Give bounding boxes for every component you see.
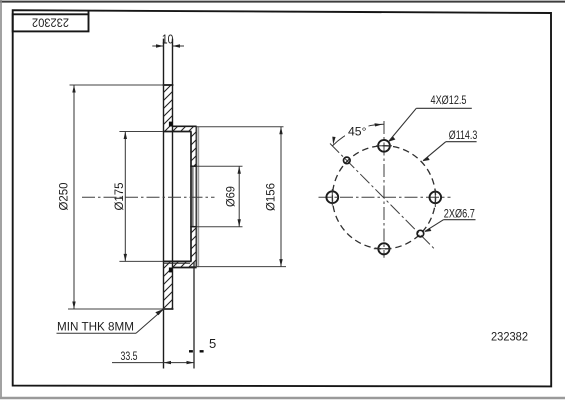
hatch bottom wall bbox=[164, 261, 197, 267]
bore bottom edge bbox=[190, 226, 197, 228]
hatch bottom ring bbox=[164, 268, 173, 310]
label 2X D6.7 bbox=[424, 207, 475, 232]
title text 232302 (rotated 180) bbox=[32, 16, 69, 30]
hatch top ring bbox=[164, 85, 173, 132]
svg-text:5: 5 bbox=[209, 336, 216, 351]
section centerline bbox=[82, 196, 215, 198]
label 4X D12.5 bbox=[388, 93, 471, 142]
svg-text:Ø69: Ø69 bbox=[224, 186, 238, 207]
svg-text:Ø156: Ø156 bbox=[264, 183, 278, 211]
bolt hole right bbox=[430, 190, 442, 208]
bolt hole top bbox=[376, 140, 392, 152]
svg-text:33.5: 33.5 bbox=[121, 351, 138, 363]
svg-text:Ø250: Ø250 bbox=[56, 182, 70, 210]
scan edge left bbox=[0, 0, 2, 397]
groove notch bottom bbox=[169, 268, 172, 273]
extension line hub face down bbox=[193, 262, 195, 369]
hub right face bbox=[195, 126, 197, 267]
svg-text:232382: 232382 bbox=[491, 330, 528, 344]
disc left face line bbox=[163, 39, 165, 369]
svg-text:Ø114.3: Ø114.3 bbox=[449, 128, 478, 142]
hatch hub lower bbox=[191, 227, 196, 262]
scan edge bottom bbox=[0, 397, 565, 399]
dimension D175 bbox=[112, 132, 163, 262]
groove notch top bbox=[169, 122, 173, 127]
top hat wall bottom edge bbox=[163, 131, 192, 133]
hub bore inner line bbox=[192, 166, 194, 227]
scan edge top bbox=[0, 1, 565, 3]
dimension 5 bbox=[189, 336, 216, 351]
disc bottom edge bbox=[163, 308, 174, 310]
bottom hat wall top edge bbox=[163, 260, 192, 262]
hub face scan shadow bbox=[197, 127, 199, 268]
dimension D69 bbox=[197, 166, 243, 227]
dimension 10 bbox=[152, 31, 184, 47]
bolt hole bottom bbox=[374, 243, 392, 254]
title box top-left bbox=[13, 11, 89, 32]
hatch top wall bbox=[173, 126, 197, 131]
bolt circle dashed bbox=[332, 146, 435, 249]
svg-text:4XØ12.5: 4XØ12.5 bbox=[431, 93, 467, 107]
bolt hole left bbox=[326, 189, 338, 206]
dimension D156 bbox=[190, 127, 286, 267]
bore top edge bbox=[190, 165, 197, 167]
horizontal centerline bbox=[319, 196, 451, 198]
svg-text:Ø175: Ø175 bbox=[112, 182, 126, 210]
dimension 33.5 bbox=[112, 351, 194, 365]
hatch hub upper bbox=[191, 132, 196, 167]
bottom hat wall bottom edge bbox=[172, 267, 196, 269]
small hole upper-left bbox=[344, 157, 351, 164]
svg-text:MIN THK 8MM: MIN THK 8MM bbox=[57, 320, 134, 334]
top hat wall top edge bbox=[172, 125, 197, 127]
small hole lower-right bbox=[417, 230, 424, 237]
vertical centerline bbox=[383, 121, 385, 258]
svg-text:2XØ6.7: 2XØ6.7 bbox=[444, 207, 475, 221]
svg-text:10: 10 bbox=[162, 31, 174, 46]
svg-text:232302: 232302 bbox=[32, 16, 69, 30]
disc top edge bbox=[163, 84, 174, 86]
label D114.3 bbox=[422, 128, 477, 161]
part number 232382 bbox=[491, 330, 528, 344]
hub left face bbox=[190, 132, 192, 262]
dimension D250 bbox=[56, 85, 172, 309]
disc right face line bbox=[172, 39, 174, 309]
bottom hat wall second line bbox=[164, 262, 191, 264]
diagonal centerline bbox=[330, 144, 435, 250]
svg-text:45°: 45° bbox=[348, 124, 367, 138]
45 degree arc bbox=[332, 123, 384, 146]
note MIN THK 8MM bbox=[57, 309, 164, 334]
